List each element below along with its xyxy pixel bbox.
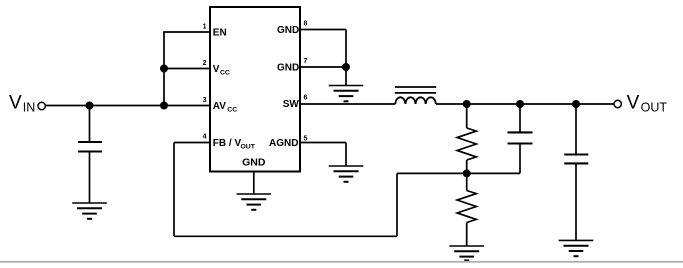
label GND bottom of IC (242, 156, 266, 168)
pin 3 number (203, 97, 207, 104)
wire pin 8 stub (300, 29, 346, 31)
svg-text:5: 5 (304, 136, 308, 143)
pin 6 number (304, 94, 308, 101)
svg-text:OUT: OUT (241, 143, 256, 150)
svg-text:4: 4 (203, 134, 207, 141)
wire SW pin to inductor (300, 103, 395, 105)
wire IC GND pin down (253, 172, 255, 195)
wire FB up (396, 173, 398, 236)
wire pin 8 down to pin 7 (345, 30, 347, 68)
pin 1 number (203, 24, 207, 31)
ground below IC GND (237, 194, 272, 210)
pin 7 label GND (277, 63, 299, 74)
page rule (gray separator line) (0, 261, 683, 263)
wire pin 5 AGND stub (300, 142, 346, 144)
wire junction to capacitor C1 top (89, 106, 91, 143)
pin 1 label EN (213, 27, 227, 38)
ground below AGND (329, 166, 364, 182)
svg-text:7: 7 (304, 58, 308, 65)
svg-text:V: V (9, 92, 22, 113)
wire pin 1 stub (163, 31, 210, 33)
svg-text:CC: CC (227, 106, 237, 113)
pin 2 number (203, 60, 207, 67)
svg-text:GND: GND (242, 156, 266, 168)
wire FB down (173, 143, 175, 237)
wire R1 bottom to mid node (466, 160, 468, 173)
junction feedback mid node (463, 169, 471, 177)
svg-text:CC: CC (220, 69, 230, 76)
pin 4 number (203, 134, 207, 141)
junction output cap node (572, 100, 580, 108)
svg-text:6: 6 (304, 94, 308, 101)
wire FB bottom horizontal (174, 235, 397, 237)
wire vertical branch to pins 1,2 (163, 32, 165, 106)
pin 3 label AVcc (213, 101, 237, 113)
svg-text:AV: AV (213, 101, 226, 112)
junction feedback divider top node (463, 100, 471, 108)
node VIN terminal circle (38, 102, 45, 109)
svg-text:2: 2 (203, 60, 207, 67)
junction feedforward cap node (516, 100, 524, 108)
ground below C3 (559, 240, 594, 256)
junction AVcc branch node (160, 102, 168, 110)
capacitor C1 (input bypass) (78, 142, 102, 152)
wire GND node to ground (345, 67, 347, 86)
wire pin 2 stub (164, 68, 210, 70)
wire capacitor C1 bottom to ground (89, 152, 91, 204)
wire mid node to feedforward cap bottom (467, 172, 520, 174)
svg-text:AGND: AGND (269, 138, 298, 149)
junction input cap node (86, 102, 94, 110)
pin 5 number (304, 136, 308, 143)
ground below pins 7,8 (329, 86, 364, 102)
pin 6 label SW (283, 99, 300, 110)
junction Vcc branch node (160, 65, 168, 73)
node VIN terminal label (9, 92, 35, 114)
svg-text:IN: IN (23, 100, 36, 114)
pin 2 label Vcc (213, 64, 230, 76)
wire C2 bottom down to mid-node rail (519, 144, 521, 174)
node VOUT terminal label (627, 92, 668, 114)
inductor L1 (395, 87, 436, 104)
wire R2 bottom to ground (466, 223, 468, 247)
pin 5 label AGND (269, 138, 298, 149)
ground below C1 (72, 203, 107, 219)
svg-text:GND: GND (277, 63, 299, 74)
svg-text:FB / V: FB / V (213, 138, 242, 149)
svg-text:V: V (627, 92, 640, 113)
svg-text:V: V (213, 64, 220, 75)
node VOUT terminal circle (614, 100, 621, 107)
op-amp U1 regulator IC body (210, 7, 300, 172)
wire mid node down to R2 (466, 173, 468, 190)
wire VIN to pin 3 (AVcc) (46, 105, 210, 107)
pin 8 label GND (277, 25, 299, 36)
svg-text:EN: EN (213, 27, 227, 38)
capacitor C3 (output) (564, 155, 588, 164)
svg-text:GND: GND (277, 25, 299, 36)
wire FB to mid node (397, 172, 467, 174)
pin 8 number (304, 21, 308, 28)
wire divider node down to R1 (466, 104, 468, 128)
svg-text:3: 3 (203, 97, 207, 104)
wire AGND down to ground (345, 143, 347, 167)
resistor R1 (feedback upper) (457, 128, 476, 160)
ground below R2 (449, 246, 484, 260)
svg-text:8: 8 (304, 21, 308, 28)
wire inductor to VOUT terminal (436, 103, 614, 105)
svg-text:SW: SW (283, 99, 300, 110)
junction GND pins node (342, 63, 350, 71)
resistor R2 (feedback lower) (457, 191, 476, 223)
pin 7 number (304, 58, 308, 65)
wire C3 bottom to ground (575, 163, 577, 240)
wire output cap node down to C3 (575, 104, 577, 155)
wire pin 7 stub (300, 66, 346, 68)
svg-text:1: 1 (203, 24, 207, 31)
svg-text:OUT: OUT (641, 100, 668, 114)
wire pin 4 FB stub (174, 142, 210, 144)
capacitor C2 (feedforward) (508, 132, 533, 143)
wire feedforward node down to C2 (519, 104, 521, 132)
pin 4 label FB / Vout (213, 138, 256, 150)
